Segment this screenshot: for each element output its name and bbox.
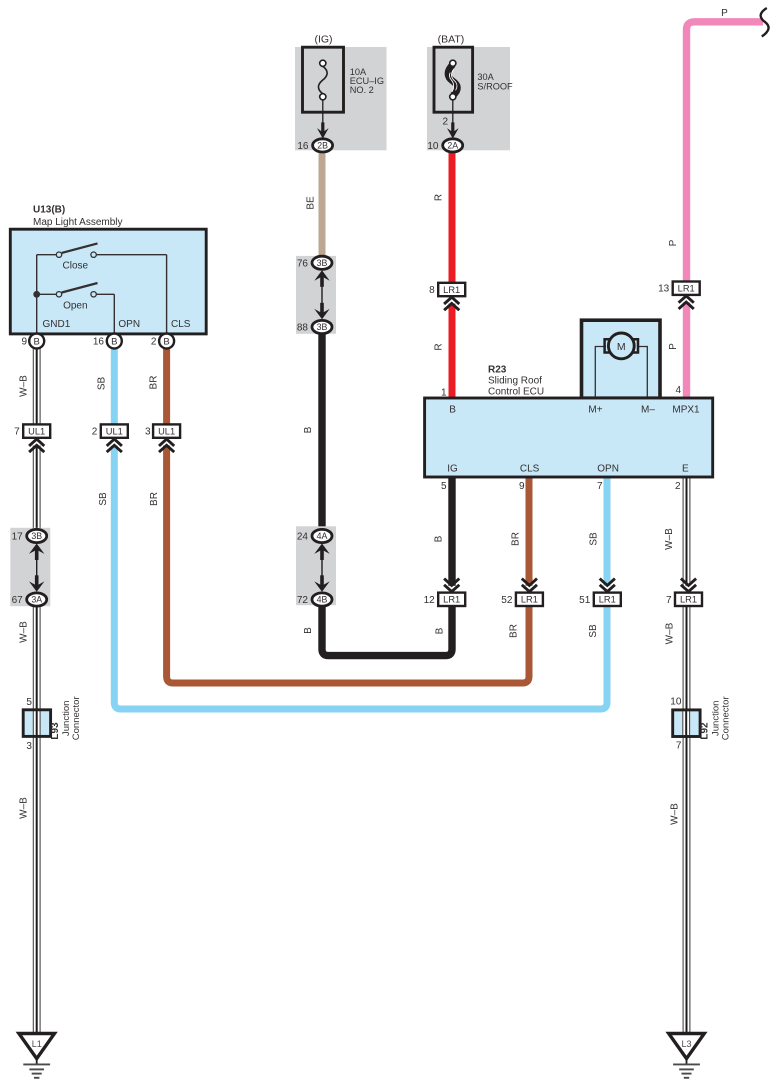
pin 9 B GND1	[29, 334, 44, 349]
wire W-B ECU E to ground L3	[683, 477, 691, 1034]
connector arrow up	[314, 270, 329, 280]
svg-text:2: 2	[92, 427, 98, 438]
wire internal GND1 rail	[36, 255, 38, 334]
svg-text:CLS: CLS	[171, 319, 191, 330]
motor box	[582, 320, 661, 398]
connector pin 10 2A	[443, 139, 463, 152]
svg-text:LR1: LR1	[521, 595, 538, 605]
svg-text:2: 2	[151, 337, 157, 348]
svg-text:L1: L1	[32, 1039, 42, 1049]
svg-text:3B: 3B	[317, 258, 328, 268]
svg-text:67: 67	[12, 595, 24, 606]
wire B 3B to 4A	[318, 333, 325, 531]
connector 7 UL1	[23, 424, 50, 437]
svg-text:Map Light Assembly: Map Light Assembly	[33, 217, 123, 228]
svg-text:3B: 3B	[317, 322, 328, 332]
svg-text:Sliding Roof: Sliding Roof	[488, 376, 542, 387]
node junction dot	[33, 291, 40, 298]
svg-text:5: 5	[441, 481, 447, 492]
svg-text:2: 2	[675, 481, 681, 492]
wire gap	[682, 295, 692, 302]
connector 52 LR1	[516, 593, 543, 606]
connector arrow down	[314, 309, 329, 319]
ground L3	[669, 1034, 705, 1059]
svg-text:CLS: CLS	[520, 464, 540, 475]
svg-text:UL1: UL1	[28, 426, 45, 436]
connector 13 LR1	[673, 282, 700, 295]
svg-text:P: P	[721, 8, 728, 19]
svg-text:9: 9	[21, 337, 27, 348]
svg-text:16: 16	[297, 141, 309, 152]
svg-text:GND1: GND1	[43, 319, 71, 330]
svg-text:3: 3	[26, 741, 32, 752]
motor wires to M+ M-	[595, 347, 606, 399]
svg-text:1: 1	[441, 387, 447, 398]
svg-text:B: B	[303, 426, 314, 433]
pin 2 B CLS	[159, 334, 174, 349]
svg-text:NO. 2: NO. 2	[350, 85, 374, 95]
svg-text:7: 7	[676, 741, 682, 752]
svg-text:51: 51	[579, 595, 591, 606]
connector pin 16 2B	[313, 139, 333, 152]
svg-text:7: 7	[597, 481, 603, 492]
svg-text:LR1: LR1	[443, 285, 460, 295]
fuse box S/ROOF background	[427, 47, 510, 150]
svg-text:(IG): (IG)	[314, 34, 332, 46]
svg-text:17: 17	[12, 532, 24, 543]
wire break symbol	[761, 8, 769, 37]
svg-text:10: 10	[670, 697, 682, 708]
connector 7 LR1	[675, 593, 702, 606]
svg-text:BR: BR	[511, 532, 522, 546]
svg-text:OPN: OPN	[118, 319, 140, 330]
wire gap	[162, 438, 172, 446]
svg-text:P: P	[668, 343, 679, 350]
svg-text:OPN: OPN	[597, 464, 619, 475]
wire P MPX1 bus	[687, 22, 764, 398]
svg-text:L93: L93	[50, 722, 61, 740]
connector 51 LR1	[594, 593, 621, 606]
svg-text:(BAT): (BAT)	[438, 34, 465, 46]
svg-text:P: P	[668, 239, 679, 246]
arrow to 2B	[317, 128, 329, 139]
wire gap	[110, 438, 120, 446]
wire gap	[682, 586, 692, 593]
wire R fuse S/ROOF to ECU B	[449, 152, 456, 399]
svg-text:LR1: LR1	[680, 595, 697, 605]
wire gap	[32, 438, 42, 446]
svg-text:UL1: UL1	[158, 426, 175, 436]
wire gap	[603, 586, 613, 593]
svg-text:U13(B): U13(B)	[33, 205, 65, 216]
svg-text:12: 12	[424, 595, 436, 606]
svg-text:Control ECU: Control ECU	[488, 387, 544, 398]
svg-text:30A: 30A	[477, 72, 494, 82]
svg-text:B: B	[163, 336, 169, 347]
svg-text:W–B: W–B	[664, 622, 675, 644]
switch Close	[37, 254, 56, 256]
junction block 76/88	[296, 256, 336, 334]
svg-text:3A: 3A	[31, 595, 42, 605]
fuse output wire	[322, 100, 324, 124]
svg-text:Connector: Connector	[71, 696, 82, 740]
svg-text:W–B: W–B	[670, 803, 681, 825]
svg-text:MPX1: MPX1	[672, 405, 700, 416]
connector wire	[321, 282, 323, 308]
svg-text:UL1: UL1	[106, 426, 123, 436]
connector pin 17 3B	[27, 529, 47, 542]
svg-text:2A: 2A	[447, 141, 458, 151]
svg-text:LR1: LR1	[599, 595, 616, 605]
svg-text:24: 24	[297, 532, 309, 543]
svg-text:Close: Close	[63, 260, 89, 271]
svg-text:B: B	[433, 535, 444, 542]
svg-text:88: 88	[297, 323, 309, 334]
connector 2 UL1	[101, 424, 128, 437]
connector 8 LR1	[438, 283, 465, 296]
svg-text:BR: BR	[509, 624, 520, 638]
svg-text:M+: M+	[588, 405, 602, 416]
connector pin 72 4B	[312, 593, 332, 606]
svg-text:BE: BE	[305, 196, 316, 210]
connector wire	[321, 555, 323, 581]
svg-text:R23: R23	[488, 365, 507, 376]
svg-text:5: 5	[26, 697, 32, 708]
svg-text:2B: 2B	[317, 141, 328, 151]
svg-text:R: R	[433, 343, 444, 350]
svg-text:2: 2	[442, 117, 448, 128]
svg-text:BR: BR	[149, 492, 160, 506]
svg-text:4B: 4B	[317, 595, 328, 605]
svg-text:9: 9	[519, 481, 525, 492]
connector pin 76 3B	[312, 256, 332, 269]
svg-text:52: 52	[501, 595, 513, 606]
svg-text:B: B	[449, 405, 456, 416]
connector arrow up	[29, 544, 44, 554]
ECU box	[425, 398, 713, 477]
svg-text:16: 16	[93, 337, 105, 348]
connector 12 LR1	[438, 593, 465, 606]
svg-text:3: 3	[145, 427, 151, 438]
svg-text:13: 13	[658, 284, 670, 295]
svg-text:Connector: Connector	[720, 696, 731, 740]
svg-text:B: B	[303, 627, 314, 634]
svg-text:R: R	[433, 194, 444, 201]
svg-text:Open: Open	[63, 300, 87, 311]
svg-text:W–B: W–B	[664, 528, 675, 550]
wire gap	[447, 586, 457, 593]
svg-text:SB: SB	[96, 377, 107, 391]
wire gap	[525, 586, 535, 593]
svg-text:S/ROOF: S/ROOF	[477, 81, 513, 91]
svg-text:W–B: W–B	[18, 375, 29, 397]
fuse box ECU-IG background	[295, 47, 387, 150]
wire W-B map light GND1 to 3B connector	[33, 348, 41, 531]
svg-text:SB: SB	[589, 532, 600, 546]
wire SB map light OPN to ECU OPN	[114, 348, 607, 709]
svg-text:L92: L92	[700, 722, 711, 740]
svg-text:M: M	[617, 341, 626, 353]
svg-text:L3: L3	[681, 1039, 691, 1049]
junction block 17/67	[10, 528, 50, 606]
svg-text:SB: SB	[98, 492, 109, 506]
svg-text:M–: M–	[641, 405, 655, 416]
pin 16 B OPN	[107, 334, 122, 349]
connector pin 88 3B	[312, 320, 332, 333]
junction connector L92	[673, 710, 700, 737]
svg-text:IG: IG	[447, 464, 458, 475]
wire W-B 3A connector to ground L1	[33, 604, 41, 1034]
connector arrow up	[314, 544, 329, 554]
svg-text:7: 7	[14, 427, 20, 438]
svg-text:3B: 3B	[31, 531, 42, 541]
arrow to 2A	[447, 128, 459, 139]
svg-text:76: 76	[297, 258, 309, 269]
connector pin 24 4A	[312, 529, 332, 542]
ground L1	[19, 1034, 55, 1059]
connector 3 UL1	[153, 424, 180, 437]
wire B ECU IG to 4B	[322, 477, 452, 656]
fuse 10A ECU-IG NO.2	[303, 47, 344, 112]
svg-text:4A: 4A	[317, 531, 328, 541]
svg-text:8: 8	[429, 285, 435, 296]
svg-text:4: 4	[675, 385, 681, 396]
svg-text:B: B	[111, 336, 117, 347]
svg-text:BR: BR	[148, 376, 159, 390]
connector arrow down	[29, 581, 44, 591]
connector arrow down	[314, 581, 329, 591]
svg-text:SB: SB	[588, 624, 599, 638]
wire BR map light CLS to ECU CLS	[167, 348, 529, 683]
wire BE fuse ECU-IG to 3B	[319, 152, 326, 258]
svg-text:W–B: W–B	[18, 621, 29, 643]
switch Open	[39, 293, 56, 295]
wire gap	[447, 296, 457, 303]
motor M1	[605, 339, 610, 352]
fuse output wire pin 2	[452, 100, 454, 124]
svg-text:B: B	[434, 627, 445, 634]
junction connector L93	[23, 710, 50, 737]
connector pin 67 3A	[27, 593, 47, 606]
junction block 24/72	[296, 526, 336, 605]
svg-text:W–B: W–B	[18, 797, 29, 819]
svg-text:E: E	[682, 464, 689, 475]
svg-text:7: 7	[666, 595, 672, 606]
svg-text:LR1: LR1	[678, 284, 695, 294]
svg-text:10: 10	[427, 141, 439, 152]
connector wire	[36, 555, 38, 581]
fuse 30A S/ROOF	[434, 47, 473, 112]
svg-text:B: B	[34, 336, 40, 347]
svg-text:72: 72	[297, 595, 309, 606]
svg-text:LR1: LR1	[443, 595, 460, 605]
